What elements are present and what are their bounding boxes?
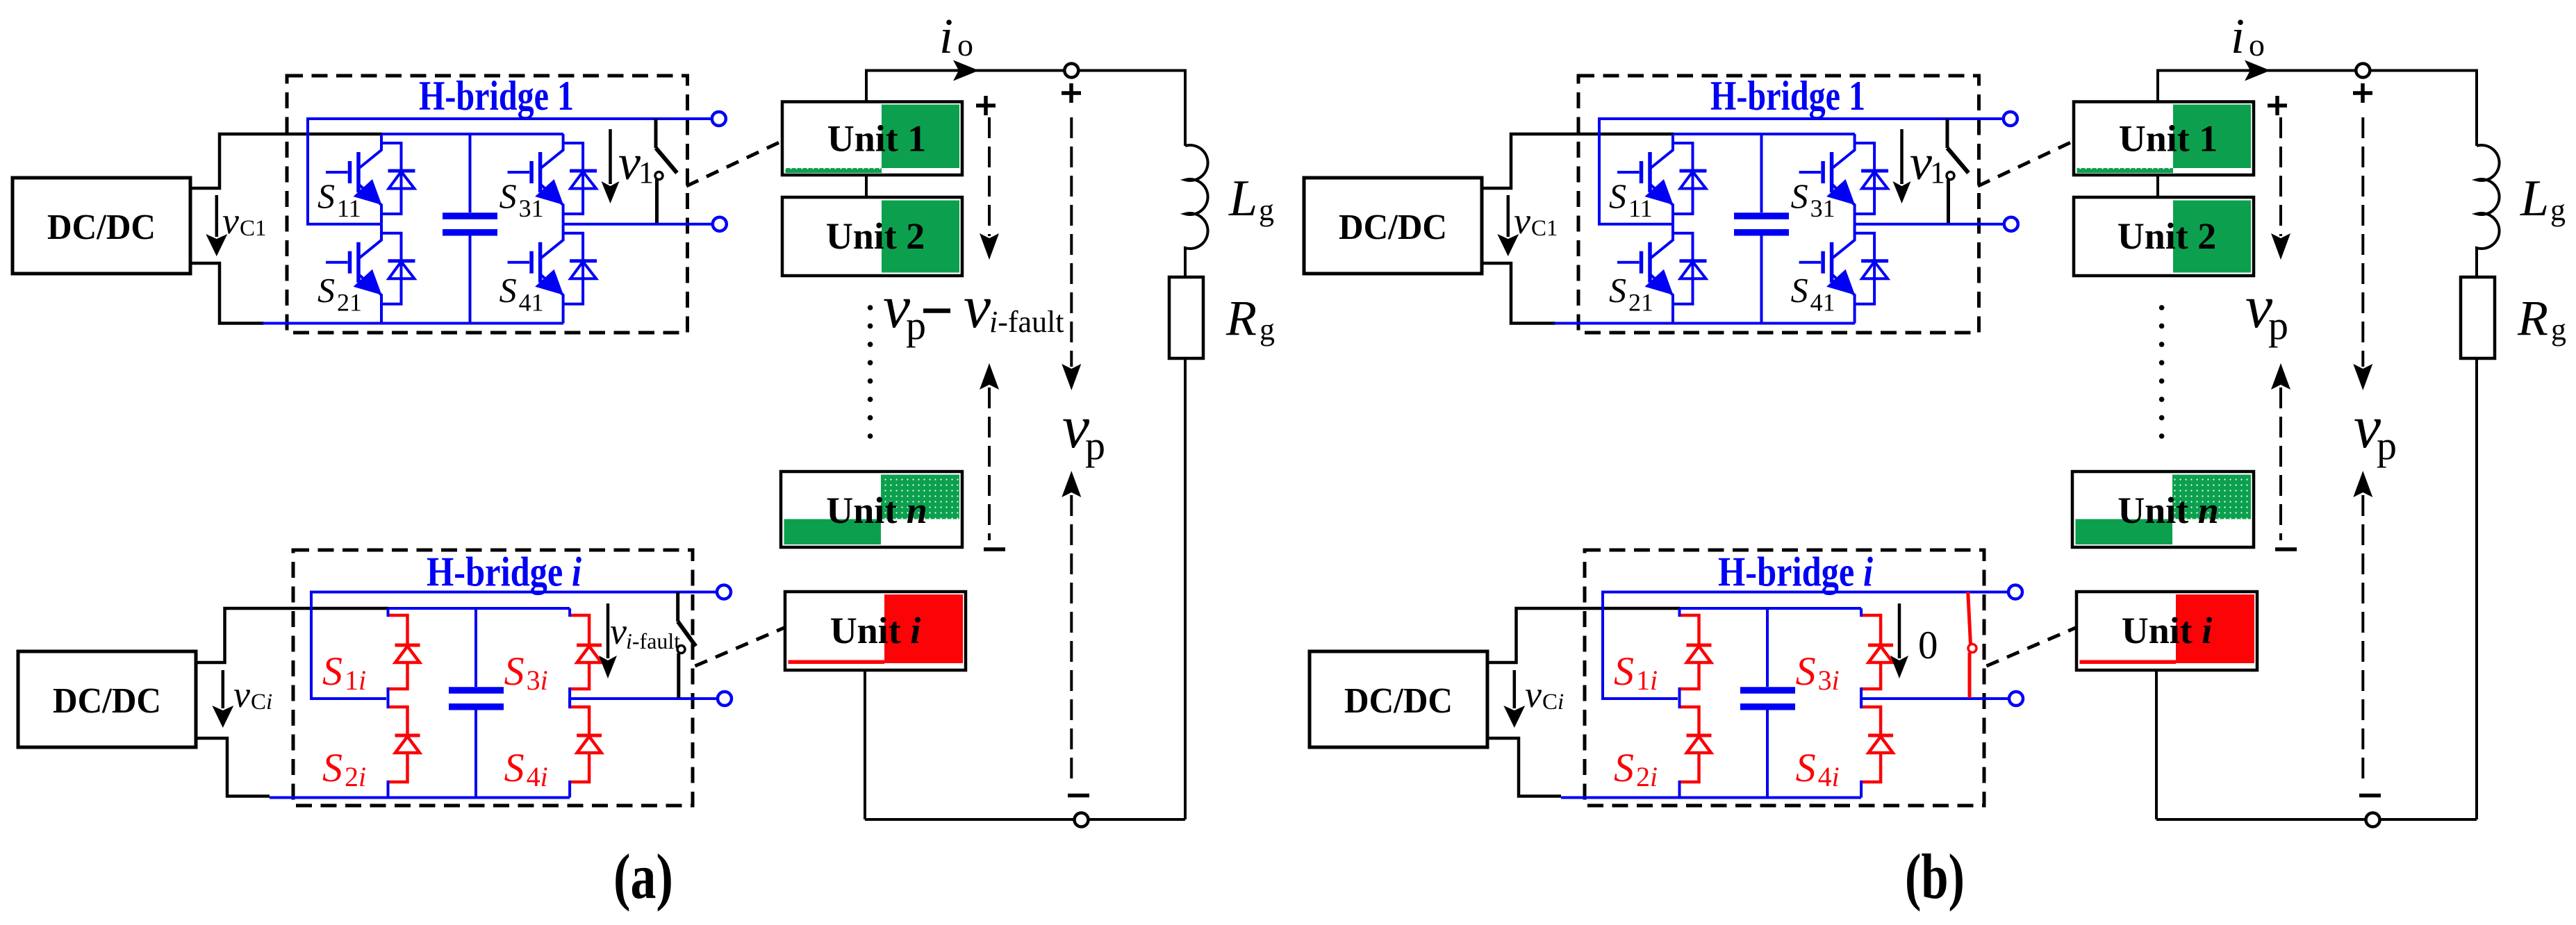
capacitor C1 [1734,134,1789,324]
svg-text:Unit 2: Unit 2 [2117,215,2217,257]
svg-text:Unit 1: Unit 1 [2119,118,2218,160]
label vC1 [222,200,267,242]
terminal node 2 of H-bridge 1 [2004,217,2018,231]
wire DC/DC2 to H-bridge i (-) [196,738,270,797]
diode of S21 [1673,233,1707,304]
wire bottom rail (bridge i) [270,797,570,799]
svg-text:Unit 1: Unit 1 [827,118,927,160]
failed switch (diode) S4i [1860,707,1893,782]
arrowhead down (vp) [1062,364,1081,390]
capacitor Ci [1740,608,1795,798]
svg-text:Unit 2: Unit 2 [826,215,925,257]
diode of S31 [563,143,597,214]
unit n (healthy) [2072,472,2254,547]
H-bridge i enclosure [293,550,693,806]
arrow v1 [1893,129,1911,203]
dashed link H-bridge i to Unit i [695,627,786,666]
svg-text:31: 31 [1810,194,1835,222]
svg-text:S: S [1791,271,1808,310]
wire stub S4i [568,697,571,798]
svg-text:S: S [1609,271,1626,310]
wire DC/DC1 to H-bridge 1 (+) [190,134,382,188]
wire stub S1i [1678,608,1681,708]
svg-text:S: S [1614,649,1634,694]
capacitor C1 [443,134,497,324]
svg-text:1i: 1i [1636,665,1658,696]
label vp (left measure) [2245,274,2288,348]
svg-text:p: p [2268,303,2288,348]
wire DC/DC2 to H-bridge i (+) [1487,608,1680,662]
svg-text:C1: C1 [240,216,267,241]
wire DC/DC2 to H-bridge i (-) [1487,738,1561,797]
label vp - vi-fault [883,274,1064,348]
svg-text:S: S [499,271,517,310]
junction node - [2366,813,2380,827]
switch of unit 1 (open) [1947,119,1969,223]
wire stub S3i [1860,608,1863,708]
label S41 [499,271,544,317]
svg-text:2i: 2i [1636,761,1658,792]
unit n (healthy) [781,472,962,547]
switch of unit 1 (open) [655,119,677,223]
dotted continuation [868,305,873,439]
arrow vCi [1503,670,1525,728]
unit i (faulty) [2077,592,2257,670]
measure line vp upper [1070,117,1073,367]
svg-text:DC/DC: DC/DC [1339,208,1447,247]
measure line (left) lower [2279,387,2282,540]
wire right leg midpoint to terminal-2 [1855,223,2004,226]
terminal node 2 of H-bridge 1 [713,217,727,231]
measure line (left) upper [988,117,991,236]
svg-text:o: o [2249,27,2265,62]
switch of unit i (closed, red) [1968,592,1976,698]
svg-text:DC/DC: DC/DC [1344,681,1453,721]
svg-text:S: S [317,176,335,215]
failed switch (diode) S2i [1679,707,1712,782]
svg-text:v: v [1910,135,1932,190]
wire DC/DC1 to H-bridge 1 (-) [190,263,264,324]
svg-text:11: 11 [1628,194,1653,222]
svg-text:L: L [1228,170,1257,227]
svg-text:Unit n: Unit n [826,490,927,531]
wire top rail (bridge i) [388,607,570,610]
minus sign (vp measure) [2359,794,2381,798]
label Rg [2517,290,2566,347]
wire DC/DC1 to H-bridge 1 (+) [1482,134,1674,188]
wire stub S2i [1678,697,1681,798]
label S1i [322,649,366,696]
arrowhead up (left measure) [2271,363,2290,390]
label S21 [1609,271,1653,317]
svg-text:g: g [2551,312,2566,347]
label vp [2354,394,2397,468]
label Lg [2520,170,2566,227]
H-bridge 1 enclosure [1578,76,1979,333]
arrowhead down (vp) [2353,364,2372,390]
svg-text:41: 41 [1810,289,1835,317]
wire terminal-1 to left leg midpoint [308,119,711,224]
inductor Lg [2477,145,2500,277]
measure line (left) lower [988,387,991,540]
label Lg [1228,170,1274,227]
svg-text:41: 41 [519,289,544,317]
svg-text:v: v [1514,200,1530,242]
converter DC/DC (top) [1304,178,1482,274]
svg-text:0: 0 [1918,624,1938,667]
arrowhead up (vp) [1062,471,1081,497]
unit 2 (healthy) [2074,197,2254,276]
minus tick (left measure) [2275,547,2297,551]
svg-text:S: S [322,745,342,790]
wire stub S1i [387,608,390,708]
svg-text:31: 31 [519,194,544,222]
svg-text:1: 1 [638,156,654,190]
terminal node 2 of H-bridge i [718,692,732,706]
minus tick (left measure) [984,547,1005,551]
svg-text:R: R [1225,290,1257,346]
failed switch (diode) S1i [1679,615,1712,689]
minus sign (vp measure) [1068,794,1089,798]
svg-text:o: o [957,27,973,62]
arrow vi-fault [599,603,617,678]
label S21 [317,271,362,317]
label S1i [1614,649,1658,696]
svg-text:S: S [317,271,335,310]
wire stub S4i [1860,697,1863,798]
label S3i [1796,649,1840,696]
label S2i [1614,745,1658,792]
converter DC/DC (top) [13,178,190,274]
arrowhead down (left measure) [2271,233,2290,260]
label vCi [233,674,272,715]
label io [939,8,973,64]
measure line vp lower [1070,495,1073,782]
unit 1 (healthy) [782,102,962,176]
label S11 [317,176,361,222]
label S11 [1609,176,1653,222]
measure line vp lower [2361,495,2364,782]
svg-text:R: R [2517,290,2548,346]
wire top rail (bridge i) [1680,607,1861,610]
svg-text:g: g [2550,193,2566,227]
failed switch (diode) S3i [1860,615,1893,689]
H-bridge i enclosure [1585,550,1984,806]
unit 2 (healthy) [782,197,962,276]
svg-text:H-bridge 1: H-bridge 1 [419,73,574,119]
measure line (left) upper [2279,117,2282,236]
wire output bottom [2156,818,2477,821]
inductor Lg [1185,145,1208,277]
svg-text:g: g [1260,312,1275,347]
terminal node 1 of H-bridge 1 [712,112,726,126]
svg-text:v: v [964,274,991,341]
svg-text:DC/DC: DC/DC [53,681,161,721]
transistor S21 [1617,224,1674,324]
arrow zero-volt [1890,603,1908,678]
wire terminal-1 to left leg midpoint (bridge i) [1603,592,2008,699]
wire stub S3i [568,608,571,708]
converter DC/DC (bottom) [18,651,196,747]
svg-text:S: S [504,745,525,790]
label S31 [499,176,544,222]
svg-text:3i: 3i [1818,665,1840,696]
svg-text:i: i [939,8,953,64]
diode of S41 [563,233,597,304]
svg-text:v: v [1525,674,1542,715]
wire right leg midpoint to terminal-2 (bridge i) [570,697,718,700]
dashed link H-bridge 1 to Unit 1 [1978,141,2074,187]
terminal node 2 of H-bridge i [2009,692,2023,706]
svg-text:(a): (a) [613,841,673,912]
measure line vp upper [2361,117,2364,367]
wire bottom rail [1554,322,1855,325]
terminal node 1 of H-bridge i [717,585,731,599]
label S3i [504,649,548,696]
svg-text:S: S [1796,649,1816,694]
label S2i [322,745,366,792]
svg-text:11: 11 [337,194,361,222]
svg-text:i-fault: i-fault [626,628,680,653]
wire terminal-1 to left leg midpoint [1599,119,2003,224]
transistor S21 [326,224,382,324]
svg-text:4i: 4i [1818,761,1840,792]
diode of S11 [381,143,415,214]
plus sign (vp measure) [2353,83,2372,103]
svg-text:p: p [1085,423,1105,468]
diode of S11 [1673,143,1707,214]
svg-text:S: S [1796,745,1816,790]
diode of S31 [1855,143,1889,214]
svg-text:(b): (b) [1905,841,1965,912]
label Rg [1225,290,1275,347]
arrow vC1 [1497,195,1519,256]
arrow v1 [602,129,620,203]
svg-text:S: S [1614,745,1634,790]
svg-text:Unit i: Unit i [830,610,921,651]
failed switch (diode) S4i [569,707,602,782]
svg-text:Ci: Ci [251,690,272,715]
unit 1 (healthy) [2074,102,2254,176]
svg-text:Ci: Ci [1542,690,1564,715]
transistor S11 [326,134,382,224]
label vCi [1525,674,1564,715]
svg-text:g: g [1259,193,1274,227]
label S41 [1791,271,1835,317]
svg-text:H-bridge i: H-bridge i [1718,549,1873,595]
wire right leg midpoint to terminal-2 (bridge i) [1861,697,2009,700]
svg-text:H-bridge i: H-bridge i [427,549,581,595]
failed switch (diode) S1i [388,615,420,689]
transistor S31 [1799,134,1856,224]
label v1 [1910,135,1945,190]
wire output bottom [865,818,1185,821]
svg-text:v: v [618,135,641,190]
wire unit1-unit2 [2156,175,2159,197]
label vi-fault [610,610,680,653]
transistor S41 [1799,224,1856,324]
wire bottom rail [263,322,563,325]
H-bridge 1 enclosure [287,76,688,333]
wire unit i to output bottom [864,670,866,819]
svg-text:Unit n: Unit n [2117,490,2219,531]
plus sign (vp measure) [1062,83,1081,103]
wire output right [1184,358,1187,819]
wire unit i to output bottom [2155,670,2158,819]
svg-text:S: S [322,649,342,694]
dotted continuation [2159,305,2165,439]
label vC1 [1514,200,1558,242]
arrow vC1 [206,195,227,256]
arrowhead up (left measure) [980,363,999,390]
svg-text:3i: 3i [527,665,548,696]
svg-text:4i: 4i [527,761,548,792]
dashed link H-bridge i to Unit i [1987,627,2078,666]
arrow io [953,60,979,81]
dashed link H-bridge 1 to Unit 1 [686,141,783,187]
arrow io [2245,60,2270,81]
svg-text:S: S [504,649,525,694]
label io [2231,8,2265,64]
svg-text:v: v [222,200,239,242]
arrowhead up (vp) [2353,471,2372,497]
label v1 [618,135,654,190]
switch of unit i (open) [677,592,696,699]
terminal node 1 of H-bridge 1 [2004,112,2017,126]
svg-text:2i: 2i [345,761,366,792]
terminal node 1 of H-bridge i [2008,585,2022,599]
wire right leg midpoint to terminal-2 [563,223,712,226]
wire unit1-unit2 [865,175,868,197]
wire bottom rail (bridge i) [1561,797,1861,799]
svg-text:i-fault: i-fault [989,305,1064,339]
plus sign (left measure) [2268,96,2287,115]
diode of S21 [381,233,415,304]
capacitor Ci [449,608,504,798]
svg-text:1: 1 [1930,156,1945,190]
plus sign (left measure) [976,96,996,115]
svg-text:i: i [2231,8,2245,64]
wire DC/DC1 to H-bridge 1 (-) [1482,263,1555,324]
svg-text:v: v [233,674,250,715]
svg-text:H-bridge 1: H-bridge 1 [1710,73,1865,119]
transistor S31 [508,134,564,224]
wire top rail [382,133,563,135]
svg-text:S: S [1609,176,1626,215]
wire output top [2158,71,2477,147]
junction node - [1075,813,1089,827]
wire output top [866,71,1185,147]
resistor Rg [1169,277,1203,358]
wire stub S2i [387,697,390,798]
arrowhead down (left measure) [980,233,999,260]
transistor S41 [508,224,564,324]
arrow vCi [212,670,233,728]
unit i (faulty) [785,592,966,670]
svg-text:p: p [2377,423,2397,468]
diode of S41 [1855,233,1889,304]
wire terminal-1 to left leg midpoint (bridge i) [311,592,717,699]
svg-text:L: L [2520,170,2549,227]
svg-text:21: 21 [1628,289,1653,317]
svg-text:1i: 1i [345,665,366,696]
transistor S11 [1617,134,1674,224]
resistor Rg [2461,277,2495,358]
failed switch (diode) S3i [569,615,602,689]
label S4i [1796,745,1840,792]
svg-text:Unit i: Unit i [2122,610,2213,651]
converter DC/DC (bottom) [1310,651,1487,747]
svg-text:p: p [906,303,926,348]
svg-text:v: v [610,610,627,652]
label S4i [504,745,548,792]
wire output right [2475,358,2478,819]
svg-text:DC/DC: DC/DC [47,208,156,247]
svg-text:S: S [1791,176,1808,215]
label vp [1062,394,1105,468]
wire top rail [1674,133,1855,135]
svg-text:21: 21 [337,289,362,317]
failed switch (diode) S2i [388,707,420,782]
label S31 [1791,176,1835,222]
junction node + [2356,64,2370,78]
svg-text:C1: C1 [1531,216,1558,241]
junction node + [1064,64,1078,78]
wire DC/DC2 to H-bridge i (+) [196,608,388,662]
svg-text:S: S [499,176,517,215]
